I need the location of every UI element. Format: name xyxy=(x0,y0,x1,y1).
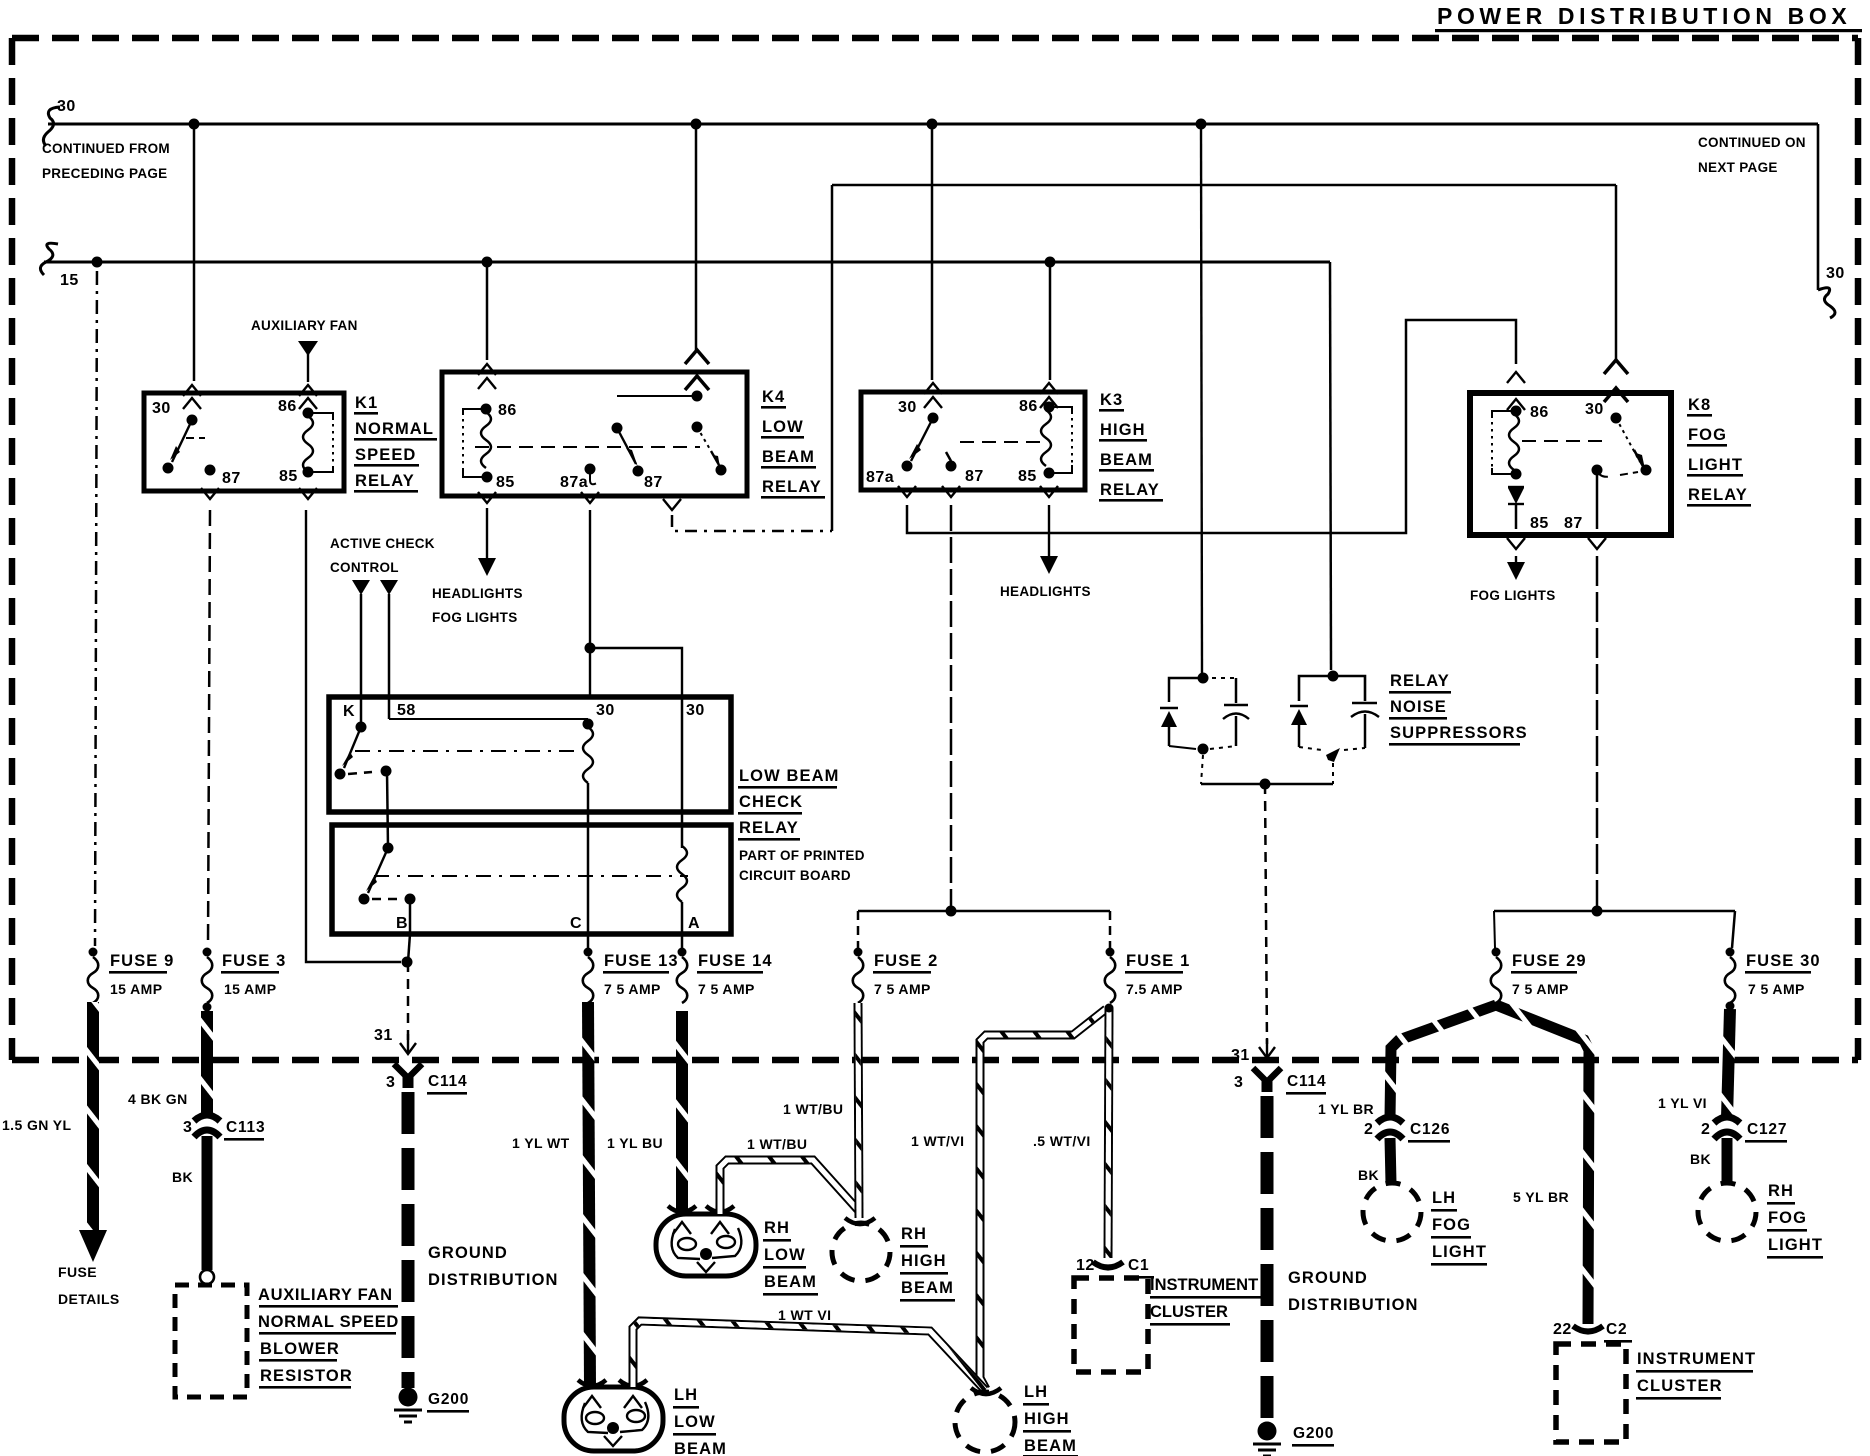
svg-text:85: 85 xyxy=(279,468,298,485)
svg-text:AUXILIARY FAN: AUXILIARY FAN xyxy=(258,1286,393,1304)
relay noise suppressor 1 xyxy=(1160,673,1249,755)
svg-text:87: 87 xyxy=(222,470,241,487)
svg-text:K: K xyxy=(343,703,355,720)
svg-text:INSTRUMENT: INSTRUMENT xyxy=(1637,1350,1756,1368)
svg-text:5 YL BR: 5 YL BR xyxy=(1513,1189,1569,1205)
wire 1 YL WT fuse13 to LH low beam xyxy=(588,1002,590,1386)
fuse 29 xyxy=(1491,948,1587,1011)
svg-text:87: 87 xyxy=(1564,515,1583,532)
wire bus30 to relay noise suppressor 1 xyxy=(1201,124,1202,674)
junction dots on bus 15 xyxy=(92,257,103,268)
svg-text:1 YL WT: 1 YL WT xyxy=(512,1135,570,1151)
lamp LH LOW BEAM xyxy=(564,1380,663,1451)
svg-text:C126: C126 xyxy=(1410,1121,1450,1138)
wire check relay C to fuse 13 xyxy=(587,934,590,948)
svg-text:K4: K4 xyxy=(762,388,785,406)
svg-text:LIGHT: LIGHT xyxy=(1688,456,1743,474)
wire K1-85 to junction with check relay B xyxy=(306,510,401,962)
svg-text:7.5 AMP: 7.5 AMP xyxy=(1126,981,1183,997)
connector C127 xyxy=(1714,1117,1740,1139)
wire bus30 to K3 terminal 30 xyxy=(931,124,934,380)
svg-text:58: 58 xyxy=(397,702,416,719)
svg-text:1 WT/BU: 1 WT/BU xyxy=(747,1136,807,1152)
svg-text:CONTINUED FROM: CONTINUED FROM xyxy=(42,141,170,156)
svg-text:BK: BK xyxy=(172,1169,193,1185)
fuse 30 xyxy=(1725,948,1821,1011)
wire check relay B to junction, dashed to C114 xyxy=(402,957,413,968)
svg-text:BK: BK xyxy=(1358,1167,1379,1183)
svg-text:K1: K1 xyxy=(355,394,378,412)
svg-text:FUSE 13: FUSE 13 xyxy=(604,952,679,970)
connector C2 xyxy=(1573,1326,1603,1332)
svg-text:30: 30 xyxy=(1585,401,1604,418)
svg-text:1 YL BU: 1 YL BU xyxy=(607,1135,663,1151)
low beam check relay box 1 xyxy=(329,697,731,812)
wire K4-87a down to check relay xyxy=(589,510,591,697)
svg-text:C2: C2 xyxy=(1606,1321,1627,1338)
lamp RH LOW BEAM xyxy=(656,1206,756,1276)
svg-text:FUSE 14: FUSE 14 xyxy=(698,952,773,970)
svg-text:30: 30 xyxy=(57,98,76,115)
wire 1 YL BU fuse14 to RH low beam xyxy=(676,1011,688,1213)
svg-text:LIGHT: LIGHT xyxy=(1768,1236,1823,1254)
wire K4-85 to headlights fog lights arrow xyxy=(486,508,488,558)
wire bus15 to K3 terminal 86 xyxy=(1049,262,1052,380)
label RH HIGH BEAM xyxy=(900,1225,955,1302)
svg-text:BEAM: BEAM xyxy=(764,1273,817,1291)
svg-text:FUSE 1: FUSE 1 xyxy=(1126,952,1190,970)
svg-text:FUSE 29: FUSE 29 xyxy=(1512,952,1587,970)
wire box1 switch to box2 switch xyxy=(387,771,388,848)
label K4 LOW BEAM RELAY xyxy=(761,388,825,499)
svg-text:SUPPRESSORS: SUPPRESSORS xyxy=(1390,724,1528,742)
svg-text:FOG: FOG xyxy=(1432,1216,1471,1234)
svg-text:15 AMP: 15 AMP xyxy=(110,981,162,997)
lamp LH HIGH BEAM xyxy=(971,1388,1001,1394)
wire bus15 corner to suppressor 2 xyxy=(1330,262,1331,670)
svg-text:2: 2 xyxy=(1364,1121,1373,1138)
svg-text:HIGH: HIGH xyxy=(901,1252,947,1270)
svg-text:RELAY: RELAY xyxy=(1390,672,1450,690)
svg-text:7 5 AMP: 7 5 AMP xyxy=(1512,981,1569,997)
svg-text:3: 3 xyxy=(386,1074,395,1091)
relay K8 xyxy=(1470,360,1671,549)
svg-text:BEAM: BEAM xyxy=(901,1279,954,1297)
svg-text:4 BK GN: 4 BK GN xyxy=(128,1091,188,1107)
svg-text:1 WT VI: 1 WT VI xyxy=(778,1307,831,1323)
wire check relay A to fuse 14 xyxy=(681,934,684,948)
svg-text:87: 87 xyxy=(644,474,663,491)
svg-text:LH: LH xyxy=(674,1386,698,1404)
svg-text:CLUSTER: CLUSTER xyxy=(1150,1303,1228,1321)
wires through gap between check relay boxes xyxy=(588,810,682,827)
label LH HIGH BEAM xyxy=(1023,1383,1078,1456)
svg-text:FUSE 3: FUSE 3 xyxy=(222,952,286,970)
svg-text:86: 86 xyxy=(498,402,517,419)
svg-text:CONTINUED ON: CONTINUED ON xyxy=(1698,135,1806,150)
svg-text:DETAILS: DETAILS xyxy=(58,1291,120,1307)
label INSTRUMENT CLUSTER (C1) xyxy=(1150,1276,1261,1326)
svg-text:85: 85 xyxy=(1530,515,1549,532)
svg-text:C1: C1 xyxy=(1128,1257,1149,1274)
wire K3-87a to K8-86 feed xyxy=(907,320,1516,533)
svg-text:1 YL BR: 1 YL BR xyxy=(1318,1101,1374,1117)
svg-text:HIGH: HIGH xyxy=(1100,421,1146,439)
wire BK to LH fog light xyxy=(1390,1138,1391,1183)
connector C113 xyxy=(194,1115,220,1137)
wire 1 WT/BU from RH low beam to RH high beam xyxy=(720,1160,858,1214)
text CONTINUED ON NEXT PAGE xyxy=(1698,135,1806,175)
wire bus30 to K1 terminal 30 xyxy=(193,124,196,381)
wire K1-87 to fuse 3 (dashed) xyxy=(208,510,210,946)
relay noise suppressor 2 xyxy=(1290,671,1379,763)
svg-text:A: A xyxy=(688,915,700,932)
svg-text:.5 WT/VI: .5 WT/VI xyxy=(1033,1133,1091,1149)
svg-text:2: 2 xyxy=(1701,1121,1710,1138)
svg-text:LOW: LOW xyxy=(762,418,804,436)
svg-text:LOW BEAM: LOW BEAM xyxy=(739,767,839,785)
wire 1 YL BR fuse 29 tent left leg to C126 xyxy=(1390,1005,1496,1118)
svg-text:1 YL VI: 1 YL VI xyxy=(1658,1095,1707,1111)
svg-text:BEAM: BEAM xyxy=(1100,451,1153,469)
svg-text:FUSE: FUSE xyxy=(58,1264,97,1280)
suppressor ground bus and dashed drop to C114 xyxy=(1201,783,1333,786)
svg-text:30: 30 xyxy=(1826,265,1845,282)
svg-text:FOG: FOG xyxy=(1688,426,1727,444)
svg-text:RH: RH xyxy=(764,1219,790,1237)
wire K4-87 feed to K8-30 : horizontal y185 xyxy=(832,185,1616,531)
svg-text:85: 85 xyxy=(1018,468,1037,485)
fuse 9 xyxy=(88,948,175,1004)
power distribution box dashed border xyxy=(12,38,1858,1060)
svg-text:7 5 AMP: 7 5 AMP xyxy=(604,981,661,997)
svg-text:DISTRIBUTION: DISTRIBUTION xyxy=(428,1271,559,1289)
svg-text:87a: 87a xyxy=(560,474,588,491)
label INSTRUMENT CLUSTER (C2) xyxy=(1636,1350,1756,1400)
svg-text:FUSE 9: FUSE 9 xyxy=(110,952,174,970)
svg-text:GROUND: GROUND xyxy=(428,1244,508,1262)
wire bus30 to K4 switch common xyxy=(695,124,698,350)
relay K3 xyxy=(861,383,1085,497)
svg-text:31: 31 xyxy=(374,1027,393,1044)
wire 1 WT/VI fuse 1 to LH high beam xyxy=(980,1009,1106,1389)
label LH FOG LIGHT xyxy=(1431,1189,1487,1266)
wire BK below C113 xyxy=(202,1136,213,1270)
instrument cluster box (C1) xyxy=(1074,1278,1148,1372)
wire bus 15 xyxy=(40,243,1330,289)
text HEADLIGHTS FOG LIGHTS xyxy=(432,586,523,625)
svg-text:12: 12 xyxy=(1076,1257,1095,1274)
svg-text:PRECEDING PAGE: PRECEDING PAGE xyxy=(42,166,167,181)
wire 1 WT/BU fuse 2 to RH high beam xyxy=(858,1003,859,1218)
svg-text:7 5 AMP: 7 5 AMP xyxy=(698,981,755,997)
wire K3-87 down to fuses 1 and 2 xyxy=(950,505,953,911)
svg-text:15: 15 xyxy=(60,272,79,289)
svg-text:CHECK: CHECK xyxy=(739,793,803,811)
svg-text:BLOWER: BLOWER xyxy=(260,1340,340,1358)
svg-text:PART OF PRINTED: PART OF PRINTED xyxy=(739,848,865,863)
svg-text:1 WT/BU: 1 WT/BU xyxy=(783,1101,843,1117)
wire 4 BK GN from fuse 3 to C113 xyxy=(201,1011,213,1118)
svg-text:FOG LIGHTS: FOG LIGHTS xyxy=(432,610,518,625)
label K8 FOG LIGHT RELAY xyxy=(1687,396,1751,507)
svg-text:HEADLIGHTS: HEADLIGHTS xyxy=(1000,584,1091,599)
svg-text:RELAY: RELAY xyxy=(739,819,799,837)
svg-text:87: 87 xyxy=(965,468,984,485)
fuse 13 xyxy=(583,948,679,1004)
svg-text:NORMAL: NORMAL xyxy=(355,420,434,438)
svg-text:15 AMP: 15 AMP xyxy=(224,981,276,997)
svg-text:HIGH: HIGH xyxy=(1024,1410,1070,1428)
wire branch to second 30 of check relay xyxy=(590,648,682,697)
wire K8-85 to fog lights arrow xyxy=(1515,556,1517,562)
text FUSE DETAILS xyxy=(58,1264,120,1307)
svg-text:GROUND: GROUND xyxy=(1288,1269,1368,1287)
fuse 1 xyxy=(1105,948,1191,1004)
svg-text:B: B xyxy=(396,915,408,932)
wire K8-87 down to fuses 29/30 xyxy=(1596,556,1599,911)
active check control arrows K and 58 xyxy=(352,580,370,595)
text ACTIVE CHECK CONTROL xyxy=(330,536,435,575)
label LH LOW BEAM xyxy=(673,1386,727,1456)
svg-text:K3: K3 xyxy=(1100,391,1123,409)
svg-text:G200: G200 xyxy=(1293,1425,1334,1442)
svg-text:7 5 AMP: 7 5 AMP xyxy=(874,981,931,997)
svg-text:RELAY: RELAY xyxy=(1688,486,1748,504)
junction dots on bus 30 xyxy=(189,119,200,130)
svg-text:C114: C114 xyxy=(1287,1073,1326,1090)
svg-text:FUSE 30: FUSE 30 xyxy=(1746,952,1821,970)
wire 5 YL BR fuse 29 tent right leg to C2 xyxy=(1496,1005,1589,1324)
svg-text:C: C xyxy=(570,915,582,932)
svg-text:NORMAL SPEED: NORMAL SPEED xyxy=(258,1313,399,1331)
svg-text:SPEED: SPEED xyxy=(355,446,416,464)
fuse 14 xyxy=(677,948,773,1004)
svg-text:CONTROL: CONTROL xyxy=(330,560,399,575)
svg-text:3: 3 xyxy=(1234,1074,1243,1091)
title POWER DISTRIBUTION BOX xyxy=(1435,3,1862,32)
svg-text:RELAY: RELAY xyxy=(355,472,415,490)
svg-text:NOISE: NOISE xyxy=(1390,698,1447,716)
svg-text:K8: K8 xyxy=(1688,396,1711,414)
wire .5 WT/VI fuse 1 to C1 xyxy=(1108,1008,1109,1258)
svg-text:1.5 GN YL: 1.5 GN YL xyxy=(2,1117,72,1133)
svg-text:POWER DISTRIBUTION BOX: POWER DISTRIBUTION BOX xyxy=(1437,3,1851,29)
wire 1.5 GN YL from fuse 9 to fuse details arrow xyxy=(87,1002,99,1230)
fuse 2 xyxy=(853,948,939,1004)
svg-text:BEAM: BEAM xyxy=(1024,1437,1077,1455)
wire bus 30 xyxy=(43,98,1844,318)
svg-text:NEXT PAGE: NEXT PAGE xyxy=(1698,160,1778,175)
svg-text:DISTRIBUTION: DISTRIBUTION xyxy=(1288,1296,1419,1314)
svg-text:INSTRUMENT: INSTRUMENT xyxy=(1150,1276,1258,1294)
label LOW BEAM CHECK RELAY xyxy=(738,767,865,883)
svg-text:85: 85 xyxy=(496,474,515,491)
text CONTINUED FROM PRECEDING PAGE xyxy=(42,141,170,181)
lamp RH HIGH BEAM xyxy=(845,1218,875,1224)
wire BK to RH fog light xyxy=(1722,1138,1733,1183)
svg-text:LIGHT: LIGHT xyxy=(1432,1243,1487,1261)
label RH FOG LIGHT xyxy=(1767,1182,1823,1259)
lamp LH FOG LIGHT xyxy=(1363,1183,1421,1241)
connector C126 xyxy=(1377,1117,1403,1139)
relay K4 xyxy=(442,350,747,510)
svg-text:LOW: LOW xyxy=(674,1413,716,1431)
svg-text:RH: RH xyxy=(901,1225,927,1243)
svg-text:HEADLIGHTS: HEADLIGHTS xyxy=(432,586,523,601)
svg-text:C113: C113 xyxy=(226,1119,265,1136)
connector C1 xyxy=(1093,1262,1123,1268)
auxiliary fan feed arrow xyxy=(251,318,358,382)
svg-text:RESISTOR: RESISTOR xyxy=(260,1367,353,1385)
svg-text:RH: RH xyxy=(1768,1182,1794,1200)
svg-text:CIRCUIT BOARD: CIRCUIT BOARD xyxy=(739,868,851,883)
svg-text:RELAY: RELAY xyxy=(762,478,822,496)
svg-text:LOW: LOW xyxy=(764,1246,806,1264)
label K3 HIGH BEAM RELAY xyxy=(1099,391,1163,502)
svg-text:86: 86 xyxy=(1530,404,1549,421)
svg-text:BEAM: BEAM xyxy=(674,1440,727,1456)
svg-text:RELAY: RELAY xyxy=(1100,481,1160,499)
svg-text:30: 30 xyxy=(596,702,615,719)
svg-text:1 WT/VI: 1 WT/VI xyxy=(911,1133,964,1149)
svg-text:G200: G200 xyxy=(428,1391,469,1408)
connector C114 ground distribution (right) xyxy=(1231,1038,1419,1456)
svg-text:FOG: FOG xyxy=(1768,1209,1807,1227)
svg-text:86: 86 xyxy=(1019,398,1038,415)
wire 1 YL VI fuse 30 to C127 xyxy=(1727,1009,1730,1118)
svg-text:BK: BK xyxy=(1690,1151,1711,1167)
wire bus15 to fuse 9 (dash-dot) xyxy=(95,262,97,946)
svg-text:LH: LH xyxy=(1432,1189,1456,1207)
svg-text:AUXILIARY FAN: AUXILIARY FAN xyxy=(251,318,358,333)
svg-text:3: 3 xyxy=(183,1119,192,1136)
label RELAY NOISE SUPPRESSORS xyxy=(1389,672,1528,746)
svg-text:30: 30 xyxy=(152,400,171,417)
connector C114 ground distribution (left) xyxy=(374,1027,559,1422)
svg-text:LH: LH xyxy=(1024,1383,1048,1401)
instrument cluster box (C2) xyxy=(1556,1344,1626,1442)
svg-text:7 5 AMP: 7 5 AMP xyxy=(1748,981,1805,997)
svg-text:FOG LIGHTS: FOG LIGHTS xyxy=(1470,588,1556,603)
svg-text:87a: 87a xyxy=(866,469,894,486)
svg-text:31: 31 xyxy=(1231,1047,1250,1064)
svg-text:BEAM: BEAM xyxy=(762,448,815,466)
label K1 NORMAL SPEED RELAY xyxy=(354,394,437,493)
svg-text:30: 30 xyxy=(686,702,705,719)
relay K1 xyxy=(144,385,344,499)
label AUXILIARY FAN NORMAL SPEED BLOWER RESISTOR xyxy=(258,1286,399,1389)
svg-text:22: 22 xyxy=(1553,1321,1572,1338)
auxiliary fan blower resistor dashed box xyxy=(175,1285,247,1397)
wire K3-85 to headlights arrow xyxy=(1048,505,1050,556)
wire bus15 to K4 terminal 86 xyxy=(486,262,489,360)
svg-text:30: 30 xyxy=(898,399,917,416)
svg-text:C127: C127 xyxy=(1747,1121,1787,1138)
fuse 3 xyxy=(202,948,287,1012)
svg-text:86: 86 xyxy=(278,398,297,415)
svg-text:CLUSTER: CLUSTER xyxy=(1637,1377,1723,1395)
svg-text:C114: C114 xyxy=(428,1073,467,1090)
lamp RH FOG LIGHT xyxy=(1698,1183,1756,1241)
label RH LOW BEAM xyxy=(763,1219,818,1296)
svg-text:FUSE 2: FUSE 2 xyxy=(874,952,938,970)
svg-text:ACTIVE CHECK: ACTIVE CHECK xyxy=(330,536,435,551)
wire 1 WT VI LH low beam to LH high beam xyxy=(633,1321,985,1390)
low beam check relay box 2 xyxy=(332,825,731,934)
wire K4-87 dashed to riser x832 xyxy=(672,515,832,531)
